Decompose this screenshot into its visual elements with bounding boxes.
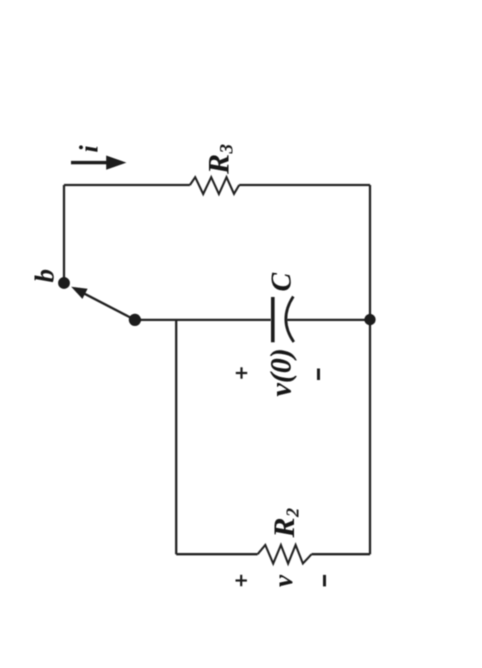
label minus of v — [323, 575, 326, 587]
svg-text:b: b — [30, 269, 60, 283]
switch arm — [84, 293, 135, 320]
resistor R2 — [258, 545, 312, 564]
junction node right — [364, 314, 375, 325]
label plus of v(0) — [236, 367, 247, 378]
wire bottom-right segment — [312, 553, 370, 555]
resistor R3 — [190, 177, 239, 194]
wire top-left segment — [64, 184, 190, 186]
current arrow i shaft — [71, 161, 108, 164]
svg-text:R3: R3 — [203, 144, 238, 175]
svg-text:v(0): v(0) — [265, 348, 298, 396]
wire middle-right segment (capacitor to junction) — [287, 319, 371, 321]
wire middle-left segment (switch pivot to capacitor) — [135, 319, 271, 321]
wire left vertical to node b — [63, 185, 65, 281]
label minus of v(0) — [317, 369, 320, 381]
switch arrowhead — [71, 287, 87, 299]
wire inner vertical branch — [175, 320, 177, 554]
node b — [58, 277, 70, 289]
switch pivot node — [129, 314, 141, 326]
svg-text:v: v — [268, 574, 298, 587]
svg-text:i: i — [75, 145, 104, 153]
capacitor C left plate — [271, 297, 275, 342]
wire top-right segment — [239, 184, 370, 186]
svg-text:C: C — [267, 273, 298, 292]
capacitor C right curved plate — [286, 297, 294, 343]
wire bottom-left segment — [176, 553, 257, 555]
wire right vertical — [369, 185, 371, 554]
label plus of v — [236, 575, 247, 586]
svg-text:R2: R2 — [268, 508, 302, 539]
current arrow i head — [106, 156, 126, 170]
